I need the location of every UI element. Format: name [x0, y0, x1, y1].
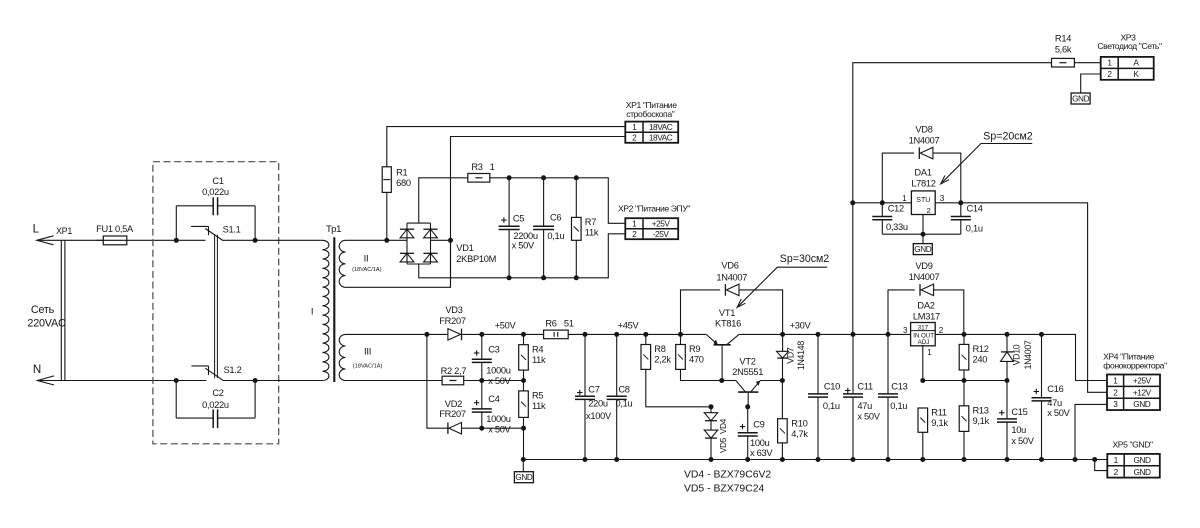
capacitor C13 0,1u [887, 334, 889, 459]
junction dots regulator [643, 332, 890, 409]
resistor R8 2,2k [641, 344, 671, 369]
svg-text:R14: R14 [1055, 34, 1071, 44]
svg-text:C10: C10 [824, 382, 840, 392]
label C15 values [1011, 407, 1034, 446]
svg-text:680: 680 [396, 178, 411, 188]
capacitor C13 plates [878, 394, 898, 397]
svg-text:GND: GND [914, 245, 931, 254]
wire R9 bottom to VT1 base node [681, 369, 722, 380]
svg-text:R12: R12 [973, 344, 989, 354]
svg-text:DA1: DA1 [914, 168, 931, 178]
svg-text:1: 1 [927, 348, 932, 357]
wire DA1 pin2 to ground bar [922, 215, 924, 235]
svg-text:10u: 10u [1011, 425, 1026, 435]
svg-text:9,1k: 9,1k [973, 416, 990, 426]
svg-text:Sp=20см2: Sp=20см2 [983, 131, 1033, 143]
capacitor C1 0,022u [176, 176, 255, 241]
resistor R13 9,1k [959, 405, 989, 431]
svg-text:0,33u: 0,33u [886, 222, 908, 232]
svg-text:GND: GND [515, 473, 532, 482]
svg-text:2,2k: 2,2k [654, 355, 671, 365]
svg-text:VT1: VT1 [719, 308, 735, 318]
wire R1 top to XP1 pin1 [387, 127, 626, 167]
svg-text:0,022u: 0,022u [202, 400, 229, 410]
svg-text:0,1u: 0,1u [890, 401, 907, 411]
svg-text:1N4007: 1N4007 [909, 272, 940, 282]
svg-text:I: I [311, 307, 313, 318]
svg-text:+45V: +45V [618, 321, 640, 331]
svg-text:C13: C13 [891, 382, 907, 392]
wire bridge plus output to R3 [419, 178, 468, 223]
ground GND symbol under R5 [522, 460, 524, 472]
wire VD8 bypass loop right [933, 153, 961, 203]
capacitor C12 0,33u [881, 203, 883, 234]
label C13 values [890, 382, 907, 411]
regulator DA2 LM317 box [911, 323, 936, 347]
wire VD6 bypass loop [681, 290, 721, 335]
node N mains line [33, 363, 54, 385]
svg-text:FR207: FR207 [439, 409, 466, 419]
svg-text:2KBP10M: 2KBP10M [456, 254, 496, 264]
junction dots ground bus [521, 457, 1097, 462]
label C9 values [750, 420, 773, 458]
capacitor C9 plates [738, 433, 758, 436]
switch S1.1 [191, 225, 241, 240]
svg-text:N: N [33, 363, 41, 376]
resistor R4 11k [519, 344, 546, 370]
svg-text:0,1u: 0,1u [616, 399, 633, 409]
bridge diode bottom-right [423, 253, 437, 262]
resistor R3 1 [468, 174, 490, 183]
svg-text:-25V: -25V [653, 229, 670, 239]
labels VD4 VD5 rotated [719, 418, 728, 453]
wire L from arrow to fuse [37, 239, 104, 241]
svg-text:KT816: KT816 [715, 319, 741, 329]
wire XP3 pin2 to ground [1081, 74, 1101, 93]
svg-text:x 50V: x 50V [1047, 408, 1070, 418]
svg-text:GND: GND [1133, 455, 1151, 465]
bridge rectifier VD1 2KBP10M [407, 223, 431, 264]
svg-text:C3: C3 [488, 345, 499, 355]
svg-text:VD1: VD1 [456, 243, 473, 253]
label R14 5,6k [1055, 34, 1072, 55]
label C14 values [966, 204, 983, 234]
wire R1 bottom to AC node [386, 192, 388, 240]
wire +50V to R6 [524, 333, 544, 335]
svg-text:C15: C15 [1011, 407, 1027, 417]
svg-text:11k: 11k [532, 401, 546, 411]
connector XP5 GND [1107, 454, 1160, 478]
regulator DA1 L7812 box [911, 191, 935, 215]
capacitor C14 plates [951, 217, 971, 220]
svg-text:L7812: L7812 [911, 179, 935, 189]
svg-text:стробоскопа": стробоскопа" [626, 109, 674, 119]
capacitor C4 1000u x 50V [481, 381, 483, 429]
svg-text:(18VAC/1A): (18VAC/1A) [352, 267, 382, 273]
wire R10 top [781, 381, 783, 419]
wire VD10 bottom [1006, 361, 1008, 380]
wire S1.2 to primary [223, 380, 323, 382]
svg-text:x 50V: x 50V [1011, 436, 1034, 446]
capacitor C7 220u x100V [584, 334, 586, 459]
svg-text:XP1: XP1 [56, 226, 72, 236]
capacitor C6 plates [533, 226, 554, 229]
capacitor C5 plates [499, 217, 520, 229]
svg-text:C4: C4 [488, 394, 499, 404]
svg-text:VD9: VD9 [915, 261, 932, 271]
diode VD9 1N4007 [920, 284, 934, 296]
svg-text:VD6: VD6 [721, 261, 738, 271]
capacitor C2 0,022u [176, 381, 255, 429]
svg-text:0,1u: 0,1u [966, 223, 983, 233]
mechanical link S1.1-S1.2 [215, 235, 218, 378]
wire R14 feed vertical from +30V rail [853, 63, 1052, 335]
label VT2 2N5551 [732, 356, 763, 377]
svg-text:C2: C2 [212, 388, 223, 398]
svg-text:1N4007: 1N4007 [1023, 340, 1033, 369]
transformer winding I (primary) [311, 240, 329, 380]
wire VD7 top [782, 334, 784, 351]
label VD8 1N4007 [909, 124, 940, 145]
resistor R12 240 [959, 344, 989, 370]
svg-text:II: II [364, 254, 369, 265]
svg-text:Sp=30см2: Sp=30см2 [780, 253, 830, 265]
svg-text:1N4148: 1N4148 [796, 341, 806, 370]
svg-text:DA2: DA2 [917, 300, 934, 310]
svg-text:Сеть: Сеть [31, 304, 55, 316]
capacitor C3 1000u x 50V [481, 334, 483, 380]
svg-text:11k: 11k [585, 228, 599, 238]
label VD9 1N4007 [909, 261, 940, 282]
wire R2 to C3 C4 node [464, 380, 482, 382]
svg-text:C1: C1 [212, 176, 223, 186]
wire R11 bottom [922, 432, 924, 459]
transformer winding III (18VAC/1A) [339, 334, 382, 380]
capacitor C10 plates [808, 394, 828, 397]
labels VD10 1N4007 rotated [1012, 340, 1033, 369]
svg-text:GND: GND [1133, 399, 1151, 409]
svg-text:R11: R11 [931, 408, 947, 418]
wire R4 bottom to node [523, 370, 525, 391]
capacitor C11 plates [843, 388, 863, 397]
junction dots DA1 area [850, 200, 963, 236]
svg-text:(18VAC/1A): (18VAC/1A) [353, 364, 383, 370]
svg-text:0,1u: 0,1u [823, 401, 840, 411]
wire VT1 base to VT2 collector [722, 380, 736, 382]
svg-text:R5: R5 [532, 391, 543, 401]
svg-text:x100V: x100V [586, 411, 612, 421]
svg-text:C7: C7 [588, 384, 599, 394]
capacitor C14 0,1u [960, 203, 962, 234]
svg-text:Светодиод "Сеть": Светодиод "Сеть" [1097, 41, 1162, 51]
capacitor C8 0,1u [616, 334, 618, 459]
svg-text:C14: C14 [967, 204, 983, 214]
junction dots mains [174, 238, 258, 383]
resistor R5 11k [519, 391, 546, 418]
connector XP1 plug twin leads [56, 226, 72, 381]
switch S1.2 [191, 365, 241, 380]
wire winding II top to bridge [346, 239, 408, 241]
label R3 1 [471, 162, 494, 172]
resistor R7 11k [572, 217, 599, 240]
svg-text:220VAC: 220VAC [27, 318, 66, 330]
svg-text:0,1u: 0,1u [547, 231, 564, 241]
svg-text:VD10: VD10 [1012, 344, 1022, 365]
capacitor C5 2200u x 50V [508, 178, 510, 278]
svg-text:R6: R6 [545, 318, 556, 328]
svg-text:LM317: LM317 [913, 312, 940, 322]
svg-text:ADJ: ADJ [918, 339, 930, 346]
zener VD4 BZX79C6V2 [710, 407, 712, 413]
svg-text:0,022u: 0,022u [202, 187, 229, 197]
svg-text:R3: R3 [471, 162, 482, 172]
svg-text:Тр1: Тр1 [326, 224, 341, 235]
svg-text:1: 1 [490, 162, 495, 172]
wire winding III bottom to R2 [346, 380, 443, 382]
svg-text:R2 2,7: R2 2,7 [441, 366, 467, 376]
capacitor C6 0,1u [543, 178, 545, 278]
wire VT2 emitter to VD7 node [760, 380, 782, 382]
wire +25V rail R3 to XP2 pin1 [490, 178, 626, 224]
label VT1 KT816 [715, 308, 741, 329]
svg-text:x 50V: x 50V [488, 425, 511, 435]
resistor R9 470 [676, 344, 704, 369]
wire VD7 bottom [782, 358, 784, 380]
svg-text:R8: R8 [654, 344, 665, 354]
diode VD3 FR207 [448, 329, 462, 341]
wire DA1 input [853, 202, 912, 204]
svg-text:220u: 220u [588, 399, 608, 409]
diode VD2 FR207 [448, 422, 462, 434]
svg-text:1000u: 1000u [486, 366, 510, 376]
wire C12 C14 ground bar [882, 233, 961, 235]
wire N to S1.2 node [37, 380, 206, 382]
label C12 values [886, 204, 908, 232]
svg-text:C8: C8 [618, 384, 629, 394]
svg-text:100u: 100u [750, 438, 770, 448]
label C5 values [512, 213, 538, 250]
svg-text:x 63V: x 63V [750, 448, 773, 458]
wire DA2 out rail [935, 334, 1107, 380]
svg-text:1N4007: 1N4007 [909, 135, 940, 145]
svg-text:VD5: VD5 [719, 437, 728, 453]
label VD3 FR207 [439, 305, 466, 326]
junction dots +25V rail and -25V rail [384, 175, 579, 280]
label C3 values [486, 345, 511, 387]
wire adj node to VD10 node [923, 380, 1007, 382]
junction dots DA2 area [920, 332, 1044, 383]
wire XP4 pin3 ground [1075, 404, 1107, 459]
capacitor C16 47u x 50V [1041, 334, 1043, 459]
svg-text:1N4007: 1N4007 [716, 272, 747, 282]
svg-text:47u: 47u [857, 401, 872, 411]
connector XP4 Питание фонокорректора [1107, 375, 1160, 411]
svg-text:VD3: VD3 [445, 305, 462, 315]
svg-text:C12: C12 [888, 204, 904, 214]
svg-text:C9: C9 [753, 420, 764, 430]
label C6 values [547, 213, 564, 241]
label C16 values [1047, 384, 1070, 418]
svg-text:R10: R10 [791, 418, 807, 428]
svg-text:III: III [364, 346, 371, 357]
svg-text:18VAC: 18VAC [649, 122, 673, 132]
wire R6 to +45V rail [568, 333, 706, 335]
svg-text:FU1 0,5A: FU1 0,5A [96, 224, 134, 234]
wire ground stub DA1 [922, 234, 924, 243]
wire bridge AC right [431, 239, 451, 241]
capacitor C8 plates [607, 396, 627, 399]
wire VD9 bypass loop left [888, 290, 915, 335]
svg-text:STU: STU [916, 197, 930, 204]
label VD6 1N4007 [716, 261, 747, 283]
transformer winding II (18VAC/1A) [339, 240, 381, 287]
svg-text:+30V: +30V [790, 321, 812, 331]
svg-text:C16: C16 [1047, 384, 1063, 394]
wire L fuse to C1 node [127, 239, 206, 241]
bridge diode top-right [423, 229, 437, 238]
wire R9 top [680, 334, 682, 344]
svg-text:VD4: VD4 [719, 418, 728, 434]
svg-text:470: 470 [689, 355, 704, 365]
wire R14 to XP3 [1074, 62, 1100, 64]
wire DA2 adj [922, 346, 924, 381]
svg-text:240: 240 [973, 355, 988, 365]
interference filter dashed enclosure [153, 162, 279, 444]
capacitor C11 47u x 50V [852, 334, 854, 459]
svg-text:VD5 - BZX79C24: VD5 - BZX79C24 [684, 483, 764, 494]
diode VD10 1N4007 vertical [1006, 334, 1008, 352]
bridge diode top-left [400, 229, 414, 238]
capacitor C9 100u x 63V [747, 407, 749, 460]
svg-text:фонокорректора": фонокорректора" [1103, 360, 1167, 370]
svg-text:x 50V: x 50V [857, 411, 880, 421]
diode VD8 1N4007 [919, 147, 933, 159]
resistor R1 680 [382, 167, 411, 193]
wire XP5 pin2 jog [1095, 460, 1108, 471]
transistor VT1 KT816 [706, 334, 739, 380]
wire R13 bottom [963, 431, 965, 459]
wire R13 top [963, 381, 965, 406]
svg-text:VD7: VD7 [786, 347, 796, 364]
svg-text:XP2 "Питание ЭПУ": XP2 "Питание ЭПУ" [618, 203, 690, 213]
node L mains line [33, 223, 54, 245]
svg-text:+50V: +50V [495, 321, 517, 331]
svg-text:47u: 47u [1047, 398, 1062, 408]
svg-text:2200u: 2200u [513, 231, 537, 241]
resistor R2 2,7 [442, 376, 464, 385]
svg-text:VT2: VT2 [739, 356, 755, 366]
resistor R6 51 [544, 330, 569, 339]
svg-text:317: 317 [918, 324, 929, 331]
wire winding III top to VD3 [346, 333, 448, 335]
svg-text:2: 2 [927, 206, 931, 215]
resistor R10 4,7k [778, 418, 809, 443]
svg-text:C6: C6 [550, 213, 561, 223]
wire VD6 to +30V corner [739, 290, 783, 335]
zener VD5 BZX79C24 [710, 421, 712, 430]
wire VD8 bypass loop left [882, 153, 914, 203]
wire R4 R5 node to C3 C4 node [482, 380, 524, 382]
capacitor C12 plates [872, 217, 892, 220]
label Сеть 220VAC [27, 304, 66, 330]
svg-text:R1: R1 [396, 167, 407, 177]
svg-text:x 50V: x 50V [512, 240, 535, 250]
connector XP3 Светодиод Сеть [1101, 57, 1154, 80]
connector XP1 Питание стробоскопа [625, 122, 678, 143]
svg-text:3: 3 [940, 194, 945, 203]
svg-text:5,6k: 5,6k [1055, 45, 1072, 55]
zener VD5 symbol [704, 430, 718, 438]
wire R5 bottom to GND bus [523, 417, 525, 459]
label DA1 L7812 [911, 168, 935, 189]
label XP3 title [1097, 33, 1162, 52]
svg-text:VD8: VD8 [915, 124, 932, 134]
pointer Sp=30cm2 heatsink note [737, 253, 829, 307]
svg-text:S1.2: S1.2 [224, 365, 242, 375]
wire R8 bottom to zener node [646, 369, 711, 406]
wire R8 top [645, 334, 647, 344]
svg-text:C11: C11 [857, 382, 873, 392]
label C4 values [486, 394, 511, 435]
capacitor C4 plates [472, 400, 492, 412]
wire bridge minus output bus [419, 234, 626, 278]
svg-text:11k: 11k [532, 355, 546, 365]
svg-text:3: 3 [903, 326, 908, 335]
fuse FU1 0,5A [96, 224, 134, 245]
svg-text:2N5551: 2N5551 [732, 367, 763, 377]
wire DA1 output to XP4 +12V [935, 203, 1107, 392]
diode VD6 1N4007 [725, 284, 739, 296]
wire R7 bottom [575, 240, 577, 277]
label XP1 title [626, 100, 677, 119]
wire VD3 cathode to +50V node [462, 333, 524, 335]
capacitor C15 10u x 50V [1006, 381, 1008, 460]
label C10 values [823, 382, 840, 411]
capacitor C3 plates [472, 350, 492, 362]
svg-text:GND: GND [1133, 467, 1151, 477]
transformer Tp1 core [333, 237, 335, 382]
svg-text:VD4 - BZX79C6V2: VD4 - BZX79C6V2 [684, 469, 771, 480]
resistor R11 9,1k [918, 408, 948, 433]
wire R4 top [523, 334, 525, 344]
label VD7 1N4148 rotated [786, 341, 806, 370]
label VD2 FR207 [439, 399, 466, 419]
capacitor C7 plates [575, 390, 595, 400]
label C7 values [586, 384, 612, 421]
wire R12 bottom [963, 370, 965, 381]
svg-text:R7: R7 [585, 217, 596, 227]
label C8 values [616, 384, 633, 408]
capacitor C16 plates [1032, 389, 1052, 401]
svg-text:R4: R4 [532, 344, 543, 354]
wire VD9 bypass loop right [934, 290, 964, 335]
pointer Sp=20cm2 heatsink note [941, 131, 1033, 184]
wire XP1 pin2 riser [451, 137, 626, 288]
plus sign C9 [740, 424, 745, 429]
wire R7 top [575, 178, 577, 218]
connector XP2 Питание ЭПУ [625, 218, 678, 239]
wire VD5 to GND bus [710, 438, 712, 459]
ground box DA1 [913, 244, 932, 255]
svg-text:9,1k: 9,1k [931, 418, 948, 428]
diode VD10 symbol [1001, 352, 1014, 362]
svg-text:VD2: VD2 [445, 399, 462, 409]
svg-text:1000u: 1000u [486, 414, 510, 424]
svg-text:R13: R13 [973, 405, 989, 415]
svg-text:R9: R9 [689, 344, 700, 354]
svg-text:18VAC: 18VAC [649, 133, 673, 143]
svg-text:+12V: +12V [1133, 387, 1152, 397]
